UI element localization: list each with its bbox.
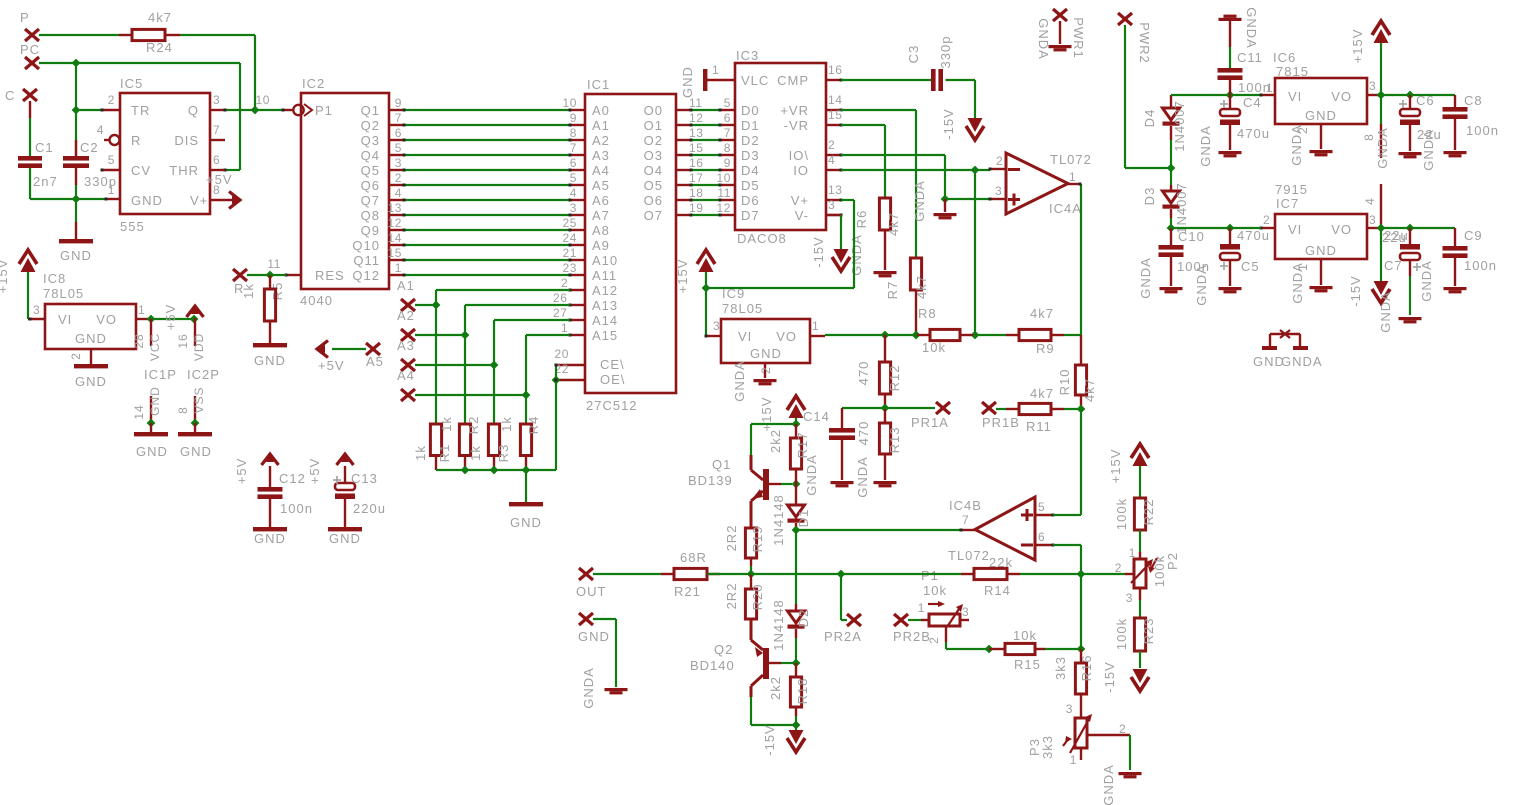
svg-text:RES: RES [315, 268, 345, 283]
svg-text:13: 13 [689, 126, 704, 140]
svg-text:-15V: -15V [762, 724, 777, 755]
svg-text:8: 8 [176, 406, 190, 414]
svg-text:1: 1 [712, 63, 719, 77]
svg-text:+15V: +15V [1350, 29, 1365, 64]
svg-text:C7: C7 [1384, 258, 1403, 273]
svg-text:13: 13 [387, 201, 402, 215]
svg-text:VSS: VSS [192, 386, 206, 413]
svg-text:6: 6 [1038, 530, 1045, 544]
svg-text:3k3: 3k3 [1040, 735, 1055, 759]
svg-text:100k: 100k [1114, 498, 1129, 530]
svg-text:GNDA: GNDA [1101, 764, 1116, 805]
svg-text:7: 7 [724, 126, 731, 140]
svg-text:4: 4 [395, 186, 402, 200]
svg-text:GNDA: GNDA [1281, 354, 1323, 369]
svg-text:3: 3 [213, 93, 220, 107]
svg-text:8: 8 [724, 141, 731, 155]
svg-text:-15V: -15V [811, 236, 826, 267]
svg-text:C10: C10 [1178, 229, 1205, 244]
svg-text:Q6: Q6 [361, 178, 380, 193]
svg-text:GNDA: GNDA [849, 234, 864, 276]
svg-text:R18: R18 [795, 678, 810, 705]
svg-text:PWR2: PWR2 [1137, 22, 1152, 64]
svg-text:2: 2 [759, 366, 773, 374]
svg-text:1N4007: 1N4007 [1174, 182, 1189, 234]
svg-text:15: 15 [828, 108, 843, 122]
svg-text:+15V: +15V [759, 397, 774, 432]
svg-text:D2: D2 [741, 133, 760, 148]
svg-text:Q: Q [188, 103, 199, 118]
svg-text:3: 3 [395, 156, 402, 170]
svg-text:5: 5 [108, 153, 115, 167]
svg-text:2: 2 [561, 276, 568, 290]
svg-text:R21: R21 [674, 584, 701, 599]
svg-text:DACO8: DACO8 [737, 231, 787, 246]
svg-text:C5: C5 [1241, 259, 1260, 274]
svg-text:IC4B: IC4B [949, 498, 982, 513]
svg-text:Q5: Q5 [361, 163, 380, 178]
svg-text:3: 3 [962, 605, 969, 619]
svg-text:P1: P1 [921, 568, 939, 583]
svg-text:A4: A4 [397, 368, 415, 383]
svg-text:1N4148: 1N4148 [771, 599, 786, 651]
svg-text:11: 11 [267, 257, 281, 271]
svg-text:CV: CV [131, 163, 151, 178]
svg-text:C9: C9 [1464, 228, 1483, 243]
svg-text:2n7: 2n7 [33, 174, 58, 189]
svg-text:IC7: IC7 [1276, 196, 1299, 211]
svg-text:D7: D7 [741, 208, 760, 223]
svg-text:O4: O4 [644, 163, 663, 178]
svg-text:Q7: Q7 [361, 193, 380, 208]
svg-text:7815: 7815 [1276, 64, 1309, 79]
svg-text:C6: C6 [1416, 93, 1435, 108]
svg-text:+5V: +5V [206, 172, 233, 187]
svg-text:2: 2 [828, 138, 835, 152]
svg-text:D3: D3 [741, 148, 760, 163]
svg-text:TL072: TL072 [948, 548, 990, 563]
svg-text:C2: C2 [80, 140, 99, 155]
svg-text:12: 12 [387, 216, 402, 230]
svg-text:C3: C3 [906, 45, 921, 64]
svg-text:555: 555 [120, 219, 145, 234]
svg-text:R11: R11 [1026, 419, 1052, 434]
svg-text:16: 16 [176, 333, 190, 348]
svg-text:GND: GND [75, 374, 107, 389]
svg-text:PWR1: PWR1 [1071, 17, 1086, 59]
svg-text:R24: R24 [146, 40, 173, 55]
svg-text:A1: A1 [592, 118, 610, 133]
svg-text:VO: VO [96, 312, 117, 327]
svg-text:1k: 1k [241, 283, 256, 299]
svg-text:VI: VI [738, 329, 752, 344]
svg-text:10: 10 [255, 93, 270, 107]
svg-text:P: P [20, 10, 30, 25]
svg-text:1: 1 [1069, 170, 1076, 184]
svg-text:3: 3 [713, 319, 720, 333]
svg-text:D3: D3 [1142, 187, 1157, 206]
svg-text:CMP: CMP [777, 73, 809, 88]
svg-text:100n: 100n [1464, 258, 1497, 273]
svg-text:27: 27 [553, 306, 568, 320]
svg-text:A6: A6 [592, 193, 610, 208]
svg-text:+15V: +15V [675, 259, 690, 294]
svg-text:R6: R6 [854, 210, 869, 229]
svg-text:GNDA: GNDA [1290, 262, 1305, 304]
svg-text:A1: A1 [397, 278, 415, 293]
svg-text:VLC: VLC [741, 73, 769, 88]
svg-text:4k7: 4k7 [914, 275, 929, 299]
svg-text:GND: GND [1305, 108, 1337, 123]
svg-text:Q8: Q8 [361, 208, 380, 223]
svg-text:7: 7 [570, 141, 577, 155]
svg-text:GNDA: GNDA [1194, 264, 1209, 306]
svg-text:22u: 22u [1382, 230, 1407, 245]
svg-text:C1: C1 [35, 140, 54, 155]
svg-text:9: 9 [724, 156, 731, 170]
svg-text:9: 9 [570, 111, 577, 125]
svg-text:VCC: VCC [148, 333, 162, 361]
svg-text:A9: A9 [592, 238, 610, 253]
svg-text:O3: O3 [644, 148, 663, 163]
svg-text:R10: R10 [1057, 369, 1072, 396]
svg-text:10k: 10k [922, 340, 946, 355]
svg-text:R16: R16 [1079, 655, 1094, 682]
svg-text:D5: D5 [741, 178, 760, 193]
svg-text:GND: GND [510, 515, 542, 530]
svg-text:6: 6 [213, 153, 220, 167]
svg-text:4k7: 4k7 [148, 10, 172, 25]
svg-text:78L05: 78L05 [43, 286, 84, 301]
svg-text:4: 4 [828, 153, 835, 167]
svg-text:Q9: Q9 [361, 223, 380, 238]
svg-text:C12: C12 [279, 471, 306, 486]
svg-text:VO: VO [1331, 222, 1352, 237]
svg-text:8: 8 [1362, 133, 1376, 141]
svg-text:D4: D4 [1142, 109, 1157, 128]
svg-text:R22: R22 [1141, 499, 1156, 526]
svg-text:A10: A10 [592, 253, 618, 268]
svg-text:7: 7 [962, 513, 969, 527]
svg-text:14: 14 [132, 404, 146, 419]
svg-text:GNDA: GNDA [1375, 127, 1390, 169]
svg-text:1: 1 [1129, 546, 1136, 560]
svg-text:A2: A2 [397, 308, 415, 323]
svg-text:3: 3 [570, 201, 577, 215]
svg-text:D2: D2 [796, 609, 811, 628]
svg-text:A5: A5 [592, 178, 610, 193]
svg-text:C4: C4 [1243, 95, 1262, 110]
svg-text:8: 8 [570, 126, 577, 140]
svg-text:GNDA: GNDA [1378, 291, 1393, 333]
svg-text:PR2A: PR2A [824, 629, 862, 644]
svg-text:C11: C11 [1237, 50, 1263, 65]
svg-text:IC6: IC6 [1273, 50, 1296, 65]
svg-text:2: 2 [1263, 213, 1270, 227]
svg-text:2: 2 [395, 171, 402, 185]
svg-text:GND: GND [148, 386, 162, 416]
svg-text:Q4: Q4 [361, 148, 380, 163]
svg-text:1k: 1k [439, 416, 454, 432]
svg-text:5: 5 [570, 171, 577, 185]
svg-text:17: 17 [689, 171, 704, 185]
svg-text:IC1: IC1 [587, 77, 610, 92]
svg-text:1N4007: 1N4007 [1172, 100, 1187, 152]
svg-text:2: 2 [69, 352, 83, 360]
svg-text:C14: C14 [803, 409, 830, 424]
svg-text:+15V: +15V [0, 259, 10, 294]
svg-text:OUT: OUT [576, 584, 606, 599]
svg-text:IO\: IO\ [789, 148, 809, 163]
svg-text:GNDA: GNDA [581, 667, 596, 709]
svg-text:2k2: 2k2 [768, 429, 783, 453]
svg-text:R15: R15 [1014, 657, 1041, 672]
svg-text:78L05: 78L05 [722, 301, 763, 316]
svg-text:VDD: VDD [192, 333, 206, 361]
svg-text:20: 20 [554, 347, 569, 361]
svg-text:GND: GND [329, 531, 361, 546]
svg-text:Q2: Q2 [714, 642, 733, 657]
svg-text:+5V: +5V [307, 458, 322, 485]
svg-text:1: 1 [1266, 81, 1273, 95]
svg-text:THR: THR [169, 163, 199, 178]
svg-text:1k: 1k [499, 416, 514, 432]
svg-text:VI: VI [1288, 89, 1302, 104]
svg-text:C13: C13 [351, 471, 378, 486]
svg-text:IC4A: IC4A [1049, 201, 1082, 216]
svg-text:Q1: Q1 [712, 457, 731, 472]
svg-text:9: 9 [395, 96, 402, 110]
svg-text:VO: VO [1331, 89, 1352, 104]
svg-text:4: 4 [570, 186, 577, 200]
svg-text:Q1: Q1 [361, 103, 380, 118]
svg-text:1: 1 [138, 303, 145, 317]
svg-text:+15V: +15V [1108, 449, 1123, 484]
svg-text:7915: 7915 [1275, 182, 1308, 197]
svg-text:P2: P2 [1165, 552, 1180, 570]
svg-text:3: 3 [1369, 213, 1376, 227]
svg-text:+5V: +5V [234, 458, 249, 485]
svg-text:15: 15 [689, 141, 704, 155]
svg-text:470: 470 [856, 421, 871, 446]
svg-text:O6: O6 [644, 193, 663, 208]
svg-text:-15V: -15V [1102, 661, 1117, 692]
svg-text:GNDA: GNDA [1036, 18, 1051, 60]
svg-text:100n: 100n [1466, 123, 1499, 138]
svg-text:R13: R13 [887, 427, 902, 454]
svg-text:A0: A0 [592, 103, 610, 118]
svg-text:IC2P: IC2P [187, 367, 220, 382]
svg-text:GNDA: GNDA [1198, 125, 1213, 167]
svg-text:2R2: 2R2 [724, 525, 739, 552]
svg-text:3k3: 3k3 [1053, 656, 1068, 680]
svg-text:12: 12 [689, 111, 704, 125]
svg-text:470u: 470u [1237, 228, 1270, 243]
svg-text:6: 6 [724, 111, 731, 125]
svg-text:GND: GND [254, 531, 286, 546]
svg-text:GNDA: GNDA [855, 456, 870, 498]
svg-text:R8: R8 [918, 306, 937, 321]
svg-text:Q12: Q12 [352, 268, 380, 283]
svg-text:3: 3 [1369, 79, 1376, 93]
svg-text:+5V: +5V [163, 304, 178, 331]
svg-text:R2: R2 [466, 416, 481, 435]
svg-text:A8: A8 [592, 223, 610, 238]
svg-text:GND: GND [680, 66, 695, 98]
svg-text:GND: GND [1305, 243, 1337, 258]
svg-text:3: 3 [995, 184, 1002, 198]
svg-text:R1: R1 [437, 444, 452, 463]
svg-text:O2: O2 [644, 133, 663, 148]
svg-text:3: 3 [1126, 591, 1133, 605]
svg-text:CE\: CE\ [600, 357, 625, 372]
svg-text:-VR: -VR [784, 118, 809, 133]
svg-text:O7: O7 [644, 208, 663, 223]
svg-text:R12: R12 [887, 365, 902, 392]
svg-text:OE\: OE\ [600, 372, 625, 387]
svg-text:PR1A: PR1A [911, 415, 949, 430]
svg-text:GNDA: GNDA [732, 360, 747, 402]
svg-text:A12: A12 [592, 283, 618, 298]
svg-text:3: 3 [33, 303, 40, 317]
svg-text:A2: A2 [592, 133, 610, 148]
svg-text:18: 18 [689, 186, 704, 200]
svg-text:14: 14 [387, 231, 402, 245]
svg-text:A13: A13 [592, 298, 618, 313]
svg-text:DIS: DIS [174, 133, 199, 148]
svg-text:R7: R7 [885, 281, 900, 300]
svg-text:C: C [5, 88, 15, 103]
svg-text:12: 12 [716, 201, 731, 215]
svg-text:10k: 10k [923, 583, 947, 598]
svg-text:IC2: IC2 [302, 76, 325, 91]
svg-text:1: 1 [395, 261, 402, 275]
svg-text:Q2: Q2 [361, 118, 380, 133]
svg-text:3: 3 [1066, 702, 1073, 716]
svg-text:15: 15 [387, 246, 402, 260]
svg-text:13: 13 [828, 183, 843, 197]
svg-text:BD139: BD139 [688, 473, 733, 488]
svg-text:2k2: 2k2 [768, 676, 783, 700]
svg-text:100n: 100n [280, 501, 313, 516]
svg-text:5: 5 [1038, 500, 1045, 514]
svg-text:R3: R3 [496, 444, 511, 463]
svg-text:2R2: 2R2 [724, 583, 739, 610]
svg-text:25: 25 [562, 216, 577, 230]
svg-text:16: 16 [689, 156, 704, 170]
svg-text:Q10: Q10 [352, 238, 380, 253]
svg-text:GNDA: GNDA [1244, 7, 1259, 49]
svg-text:5: 5 [395, 141, 402, 155]
svg-text:IC5: IC5 [120, 76, 143, 91]
svg-text:Q3: Q3 [361, 133, 380, 148]
svg-text:A3: A3 [397, 338, 415, 353]
svg-text:2: 2 [108, 93, 115, 107]
svg-text:IC3: IC3 [736, 48, 759, 63]
svg-text:330p: 330p [938, 36, 953, 69]
svg-text:4k7: 4k7 [1030, 386, 1054, 401]
svg-text:68R: 68R [680, 550, 707, 565]
svg-text:R: R [131, 133, 141, 148]
svg-text:V+: V+ [190, 193, 208, 208]
svg-text:3: 3 [828, 198, 835, 212]
svg-text:GNDA: GNDA [1289, 124, 1304, 166]
svg-text:A7: A7 [592, 208, 610, 223]
svg-text:GND: GND [75, 331, 107, 346]
svg-text:A15: A15 [592, 328, 618, 343]
svg-text:7: 7 [395, 111, 402, 125]
svg-text:2: 2 [996, 154, 1003, 168]
svg-text:1k: 1k [468, 445, 483, 461]
svg-text:2: 2 [1115, 561, 1122, 575]
svg-text:GNDA: GNDA [1138, 257, 1153, 299]
svg-text:GNDA: GNDA [1421, 129, 1436, 171]
svg-text:GND: GND [60, 248, 92, 263]
svg-text:A5: A5 [366, 354, 384, 369]
svg-text:D0: D0 [741, 103, 760, 118]
svg-text:A3: A3 [592, 148, 610, 163]
svg-text:O5: O5 [644, 178, 663, 193]
svg-text:4k7: 4k7 [886, 212, 901, 236]
svg-text:TL072: TL072 [1050, 152, 1092, 167]
svg-text:24: 24 [562, 231, 577, 245]
svg-text:O0: O0 [644, 103, 663, 118]
svg-text:R5: R5 [270, 282, 285, 301]
svg-text:TR: TR [131, 103, 150, 118]
svg-text:V+: V+ [791, 193, 809, 208]
svg-text:5: 5 [724, 96, 731, 110]
svg-text:1: 1 [108, 183, 115, 197]
svg-text:4040: 4040 [300, 293, 333, 308]
svg-text:27C512: 27C512 [586, 398, 638, 413]
svg-text:R9: R9 [1036, 341, 1055, 356]
svg-text:4: 4 [97, 123, 104, 137]
svg-text:R4: R4 [526, 416, 541, 435]
svg-text:-15V: -15V [941, 108, 956, 139]
svg-text:1k: 1k [413, 445, 428, 461]
svg-text:GND: GND [131, 193, 163, 208]
svg-text:14: 14 [828, 93, 843, 107]
svg-text:6: 6 [570, 156, 577, 170]
svg-text:O1: O1 [644, 118, 663, 133]
svg-text:GNDA: GNDA [912, 180, 927, 222]
svg-text:GND: GND [750, 346, 782, 361]
svg-text:IO: IO [793, 163, 809, 178]
svg-text:1: 1 [1070, 753, 1077, 767]
svg-text:470: 470 [856, 361, 871, 386]
svg-text:1: 1 [812, 319, 819, 333]
svg-text:IC9: IC9 [722, 286, 745, 301]
svg-text:PR1B: PR1B [982, 415, 1020, 430]
svg-text:PC: PC [20, 42, 40, 57]
svg-text:GNDA: GNDA [1419, 260, 1434, 302]
svg-text:26: 26 [553, 291, 568, 305]
svg-text:1N4148: 1N4148 [771, 494, 786, 546]
svg-text:+VR: +VR [780, 103, 809, 118]
svg-text:+5V: +5V [318, 358, 345, 373]
svg-text:10: 10 [562, 96, 577, 110]
svg-text:GND: GND [578, 629, 610, 644]
svg-text:10: 10 [716, 171, 731, 185]
svg-text:R17: R17 [795, 432, 810, 459]
svg-text:21: 21 [562, 246, 577, 260]
svg-text:D4: D4 [741, 163, 760, 178]
svg-text:PR2B: PR2B [893, 629, 931, 644]
svg-text:2: 2 [927, 636, 941, 644]
svg-text:11: 11 [717, 186, 731, 200]
svg-text:D6: D6 [741, 193, 760, 208]
svg-text:D1: D1 [741, 118, 760, 133]
